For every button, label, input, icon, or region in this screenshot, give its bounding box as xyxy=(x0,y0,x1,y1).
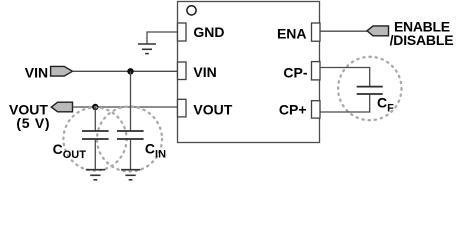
svg-text:(5 V): (5 V) xyxy=(16,115,50,131)
label (5 V) xyxy=(16,115,50,131)
wire junction to COUT xyxy=(94,107,96,131)
label VOUT (external) xyxy=(9,101,48,117)
ground (COUT) xyxy=(86,170,105,180)
highlight circle COUT (dashed) xyxy=(63,107,126,170)
output terminal VOUT tag xyxy=(51,102,72,112)
junction node VIN/CIN xyxy=(127,68,133,74)
IC U1 body xyxy=(178,2,320,143)
capacitor COUT xyxy=(82,131,109,139)
pin label VIN xyxy=(193,64,216,80)
pin label GND xyxy=(193,24,224,40)
wire junction to CIN xyxy=(130,71,132,130)
svg-text:VIN: VIN xyxy=(193,64,216,80)
wire CP- to CF top xyxy=(320,68,370,87)
pin label VOUT xyxy=(193,102,232,118)
wire GND pin to ground xyxy=(147,32,178,44)
svg-text:ENA: ENA xyxy=(277,25,307,41)
wire VIN tag to VIN pin xyxy=(73,70,178,72)
svg-text:CF: CF xyxy=(377,94,394,114)
label CF xyxy=(377,94,394,114)
wire COUT to ground xyxy=(94,140,96,170)
wire ENA to enable terminal xyxy=(320,30,367,32)
pin box VOUT xyxy=(178,99,187,117)
pin box CP- xyxy=(312,62,321,80)
label COUT xyxy=(53,141,87,161)
pin box VIN xyxy=(178,62,187,80)
wire CF bottom to CP+ xyxy=(320,95,370,113)
svg-text:CP-: CP- xyxy=(283,65,307,81)
pin label CP- xyxy=(283,65,307,81)
label ENABLE xyxy=(394,19,450,35)
wire CIN to ground xyxy=(130,140,132,170)
svg-text:GND: GND xyxy=(193,24,224,40)
svg-text:/DISABLE: /DISABLE xyxy=(390,32,454,48)
svg-text:CIN: CIN xyxy=(145,141,166,161)
svg-text:VIN: VIN xyxy=(25,64,48,80)
capacitor CF xyxy=(357,87,383,94)
ground (GND pin) xyxy=(138,44,156,54)
label /DISABLE xyxy=(390,32,454,48)
svg-text:COUT: COUT xyxy=(53,141,87,161)
pin box ENA xyxy=(312,23,321,41)
pin box CP+ xyxy=(312,101,321,118)
junction node VOUT/COUT xyxy=(92,104,98,110)
pin box GND xyxy=(178,23,187,41)
highlight circle CIN (dashed) xyxy=(97,107,162,172)
capacitor CIN xyxy=(117,131,144,139)
pin label ENA xyxy=(277,25,307,41)
svg-text:CP+: CP+ xyxy=(279,102,307,118)
svg-text:VOUT: VOUT xyxy=(193,102,232,118)
pin 1 marker circle xyxy=(187,6,196,15)
wire VOUT tag to VOUT pin xyxy=(73,106,178,108)
label VIN (external) xyxy=(25,64,48,80)
pin label CP+ xyxy=(279,102,307,118)
terminal ENABLE/DISABLE tag xyxy=(367,26,389,36)
input terminal VIN tag xyxy=(51,66,73,76)
highlight circle CF (dashed) xyxy=(338,57,401,120)
label CIN xyxy=(145,141,166,161)
ground (CIN) xyxy=(121,170,140,180)
